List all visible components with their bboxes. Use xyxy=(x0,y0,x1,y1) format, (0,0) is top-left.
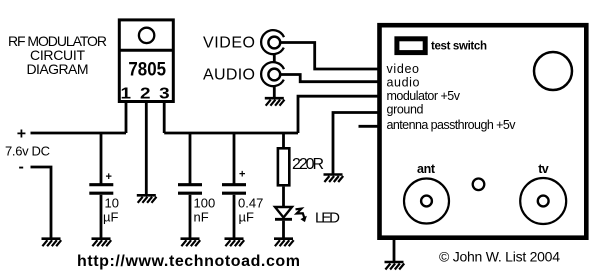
svg-text:AUDIO: AUDIO xyxy=(203,66,255,83)
RCA jack J2 AUDIO shell xyxy=(261,62,284,86)
svg-text:LED: LED xyxy=(315,210,340,227)
capacitor C2 lead upper xyxy=(189,133,192,184)
ground (C2) xyxy=(181,239,201,247)
capacitor C1 lead upper xyxy=(100,133,103,184)
capacitor C1 10uF plates xyxy=(89,185,113,194)
svg-text:2: 2 xyxy=(140,84,151,102)
svg-text:audio: audio xyxy=(387,76,420,90)
wire audio signal to box xyxy=(280,75,379,82)
ground (minus lead) xyxy=(42,239,62,247)
ground (audio shell) xyxy=(265,98,285,106)
svg-text:nF: nF xyxy=(194,210,209,225)
wire pin 3 leg xyxy=(163,101,166,133)
svg-text:100: 100 xyxy=(194,196,216,211)
connector tv outer xyxy=(520,178,566,224)
wire antenna passthrough stub xyxy=(359,125,380,128)
big circle (RF modulator can) xyxy=(534,52,572,90)
capacitor C1 lead lower xyxy=(100,195,103,240)
regulator U1 mounting hole xyxy=(139,28,154,43)
svg-text:ground: ground xyxy=(387,103,424,117)
capacitor C3 lead upper xyxy=(233,133,236,184)
svg-text:modulator +5v: modulator +5v xyxy=(387,89,461,103)
wire modulator +5v to box xyxy=(298,96,379,133)
small hole between connectors xyxy=(473,179,485,191)
svg-text:µF: µF xyxy=(103,210,118,225)
svg-text:10: 10 xyxy=(105,196,119,211)
ground (C3) xyxy=(225,239,245,247)
capacitor C2 100nF plates xyxy=(178,185,202,194)
svg-text:© John W. List 2004: © John W. List 2004 xyxy=(439,248,560,264)
resistor R1 220R body xyxy=(278,148,289,185)
capacitor C3 0.47uF plates xyxy=(222,185,246,194)
wire shell link video-audio xyxy=(273,54,276,62)
svg-text:VIDEO: VIDEO xyxy=(203,34,255,51)
regulator U1 tab divider xyxy=(119,49,173,52)
svg-text:220R: 220R xyxy=(292,156,324,173)
wire ground from box xyxy=(333,113,379,176)
ground (pin 2) xyxy=(137,195,157,203)
test switch symbol xyxy=(397,39,425,53)
RCA jack J2 AUDIO pin ring xyxy=(268,69,280,81)
svg-text:http://www.technotoad.com: http://www.technotoad.com xyxy=(77,253,300,270)
wire resistor to LED xyxy=(282,187,285,207)
RCA jack J1 VIDEO pin ring xyxy=(268,37,280,49)
wire input rail from + to pin 1 xyxy=(31,132,127,135)
svg-text:video: video xyxy=(387,62,420,76)
RCA jack J1 VIDEO shell xyxy=(261,30,284,54)
wire box bottom to ground xyxy=(393,238,396,263)
wire minus lead to ground xyxy=(31,167,52,240)
svg-text:test switch: test switch xyxy=(431,40,487,52)
svg-text:+: + xyxy=(239,169,245,181)
connector ant outer xyxy=(404,179,449,224)
connector tv center pin xyxy=(538,196,549,207)
ground (box chassis) xyxy=(385,262,405,270)
ground (box ground wire) xyxy=(324,175,344,183)
svg-text:7.6v DC: 7.6v DC xyxy=(5,144,50,159)
svg-text:µF: µF xyxy=(239,210,254,225)
capacitor C3 lead lower xyxy=(233,195,236,240)
wire audio shell to ground xyxy=(273,86,276,98)
svg-text:DIAGRAM: DIAGRAM xyxy=(27,61,89,77)
ground (LED) xyxy=(274,239,294,247)
LED D1 triangle xyxy=(275,207,292,218)
svg-text:0.47: 0.47 xyxy=(238,196,263,211)
wire LED to ground xyxy=(282,221,285,240)
capacitor C2 lead lower xyxy=(189,195,192,240)
wire video signal to box xyxy=(280,43,379,70)
svg-text:1: 1 xyxy=(120,84,131,102)
wire resistor branch from rail xyxy=(282,133,285,148)
svg-text:ant: ant xyxy=(417,162,436,176)
svg-text:tv: tv xyxy=(538,162,549,176)
svg-text:3: 3 xyxy=(159,84,170,102)
regulator U1 7805 body xyxy=(119,20,173,102)
title text RF MODULATOR CIRCUIT DIAGRAM xyxy=(8,33,107,77)
svg-text:antenna passthrough +5v: antenna passthrough +5v xyxy=(387,118,517,132)
connector ant center pin xyxy=(421,196,432,207)
ground (C1) xyxy=(92,239,112,247)
wire pin 2 leg xyxy=(145,101,148,196)
wire output +5v rail xyxy=(164,132,298,135)
svg-text:7805: 7805 xyxy=(128,58,166,79)
LED D1 cathode bar xyxy=(275,218,292,221)
wire pin 1 leg xyxy=(125,101,128,133)
svg-text:-: - xyxy=(19,159,24,176)
svg-text:+: + xyxy=(106,171,112,183)
modulator box xyxy=(380,25,587,238)
LED D1 emission arrow xyxy=(296,209,305,218)
svg-text:+: + xyxy=(17,126,26,143)
